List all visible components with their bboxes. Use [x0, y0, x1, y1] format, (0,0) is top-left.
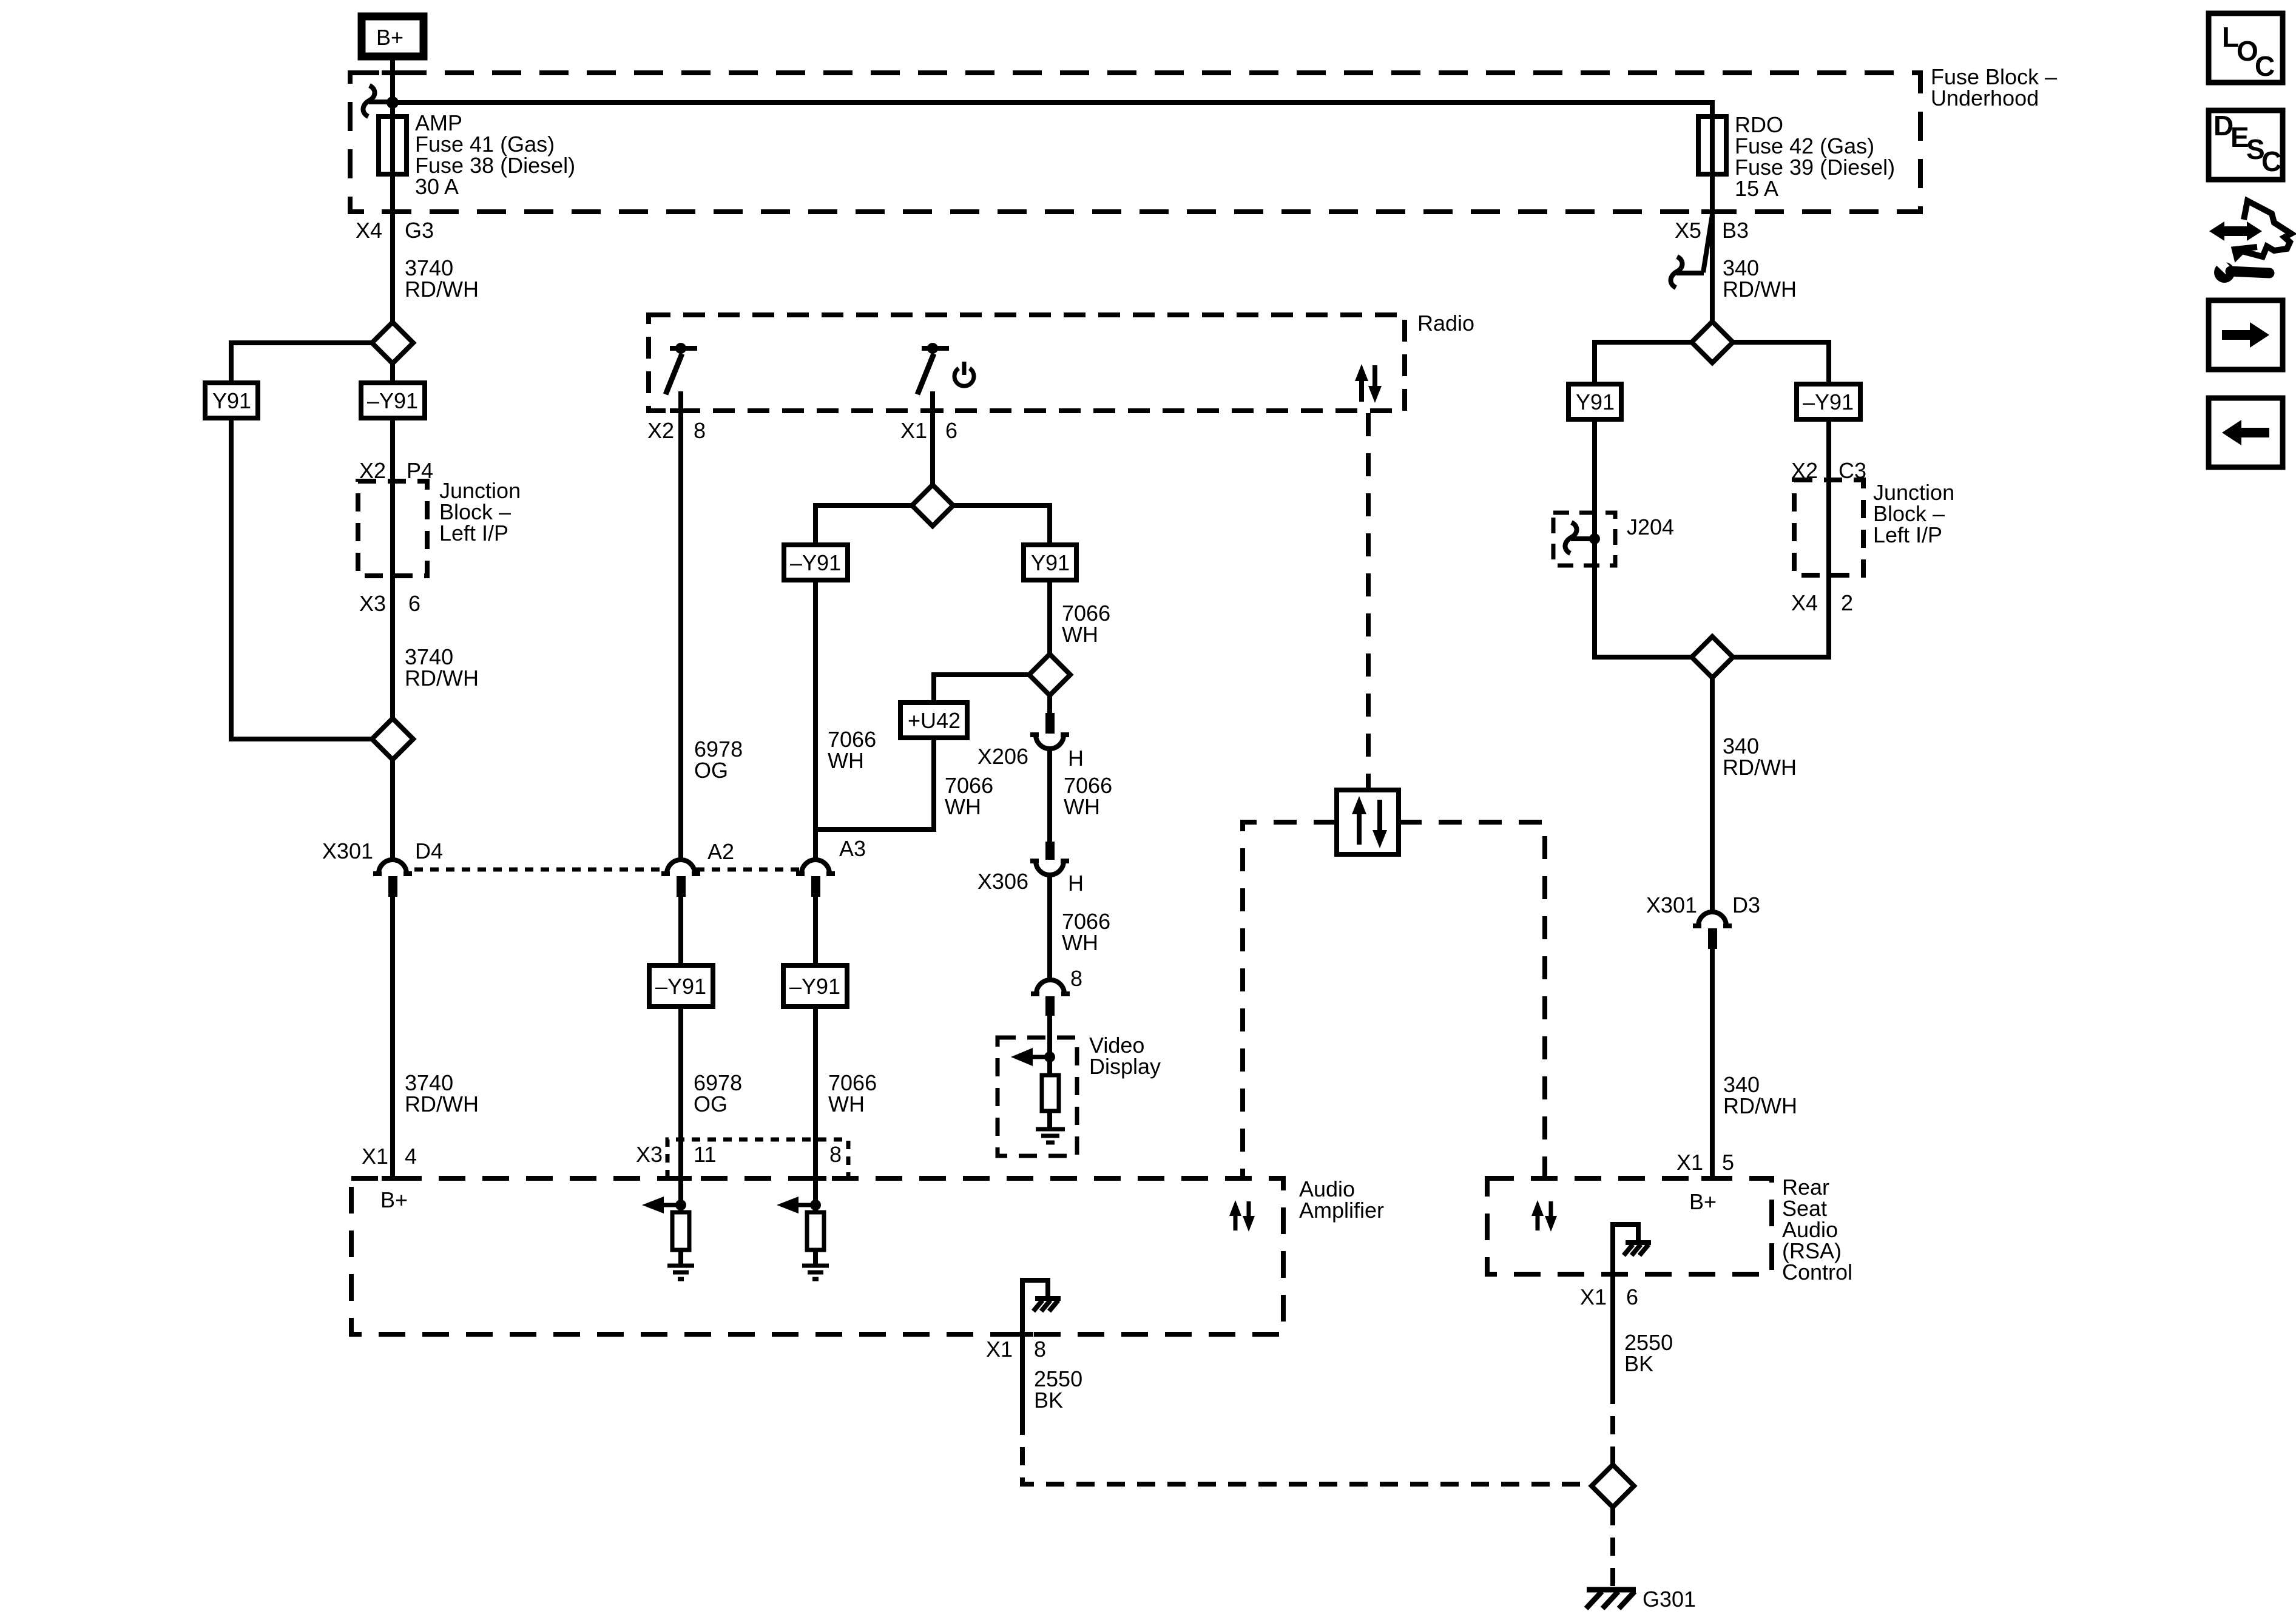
wire Y91 mid down to diamond	[1047, 580, 1052, 654]
svg-text:5: 5	[1722, 1150, 1734, 1175]
amp ground right	[802, 1266, 829, 1279]
radio power switch X1 pivot dot	[927, 343, 938, 354]
connector X206 pin	[1045, 713, 1055, 734]
connector label X301 D3	[1646, 893, 1760, 917]
svg-text:WH: WH	[828, 1092, 865, 1116]
tick X3-8 wire at amp edge	[805, 1176, 826, 1181]
svg-text:OG: OG	[694, 1092, 728, 1116]
label Rear Seat Audio RSA Control	[1782, 1175, 1852, 1284]
amp input arrow right	[777, 1197, 815, 1214]
tick from curl to bus	[369, 100, 388, 104]
wire -Y91 lower left to amp	[678, 1007, 683, 1205]
splitter diamond radio power	[912, 485, 953, 526]
connector A2 pin	[677, 876, 686, 897]
tick X1-8 wire at amp bottom edge	[1011, 1332, 1033, 1337]
wire diamond to -Y91 right	[1733, 342, 1829, 384]
svg-text:B+: B+	[380, 1187, 408, 1212]
tick X2 wire at radio edge	[670, 408, 692, 413]
svg-text:X2: X2	[647, 418, 674, 443]
radio switch X2 blade	[666, 354, 682, 394]
svg-text:WH: WH	[828, 748, 864, 773]
RSA control dashed box	[1487, 1178, 1772, 1274]
svg-text:8: 8	[1034, 1337, 1046, 1362]
svg-text:WH: WH	[945, 794, 981, 819]
wire D3 down to RSA	[1710, 949, 1715, 1178]
svg-text:A2: A2	[707, 839, 734, 864]
sidebar repair icon wrench	[2211, 254, 2269, 283]
ground G301	[1586, 1590, 1636, 1609]
connector X206 cup	[1036, 735, 1064, 749]
wire label 7066 WH left branch	[828, 727, 876, 773]
splice curl at B+ bus	[363, 86, 374, 116]
connector 8 pin	[1045, 996, 1055, 1016]
svg-text:Y91: Y91	[1576, 390, 1615, 414]
svg-text:H: H	[1068, 746, 1084, 771]
splice curl J204	[1565, 522, 1576, 553]
wire X206 chain from diamond	[1047, 695, 1052, 713]
wire label 340 RD/WH lower	[1723, 1072, 1797, 1118]
dashed wire diamond to G301	[1610, 1507, 1615, 1587]
svg-text:WH: WH	[1062, 930, 1098, 955]
label RDO fuse	[1735, 112, 1895, 201]
connector label X301 D4	[322, 839, 443, 863]
connector label X1 6 radio	[900, 418, 957, 443]
connector box Y91 left	[205, 383, 258, 418]
svg-text:–Y91: –Y91	[655, 974, 706, 999]
wire radio X2 down	[678, 391, 683, 859]
wire diamond to X301 D4	[390, 760, 395, 859]
wire resistor right to ground	[813, 1205, 818, 1266]
tick B+ wire at fuse block top edge	[382, 70, 403, 75]
splitter diamond right bottom	[1692, 636, 1733, 678]
connector label X306 H	[977, 869, 1084, 896]
svg-text:Amplifier: Amplifier	[1299, 1198, 1384, 1223]
connector box -Y91 lower right	[783, 965, 847, 1007]
connector A3 arc	[802, 860, 829, 874]
label Junction Block - Left I/P	[439, 478, 521, 545]
connector X3 dotted box	[667, 1139, 848, 1178]
svg-text:RD/WH: RD/WH	[1723, 277, 1797, 302]
svg-text:X3: X3	[359, 591, 386, 616]
radio serial data arrows	[1355, 364, 1382, 403]
connector label X4 G3	[356, 218, 434, 243]
splice J204 dashed box	[1553, 513, 1615, 565]
wire label 6978 OG lower	[694, 1070, 742, 1116]
junction block left IP dashed box (right)	[1794, 480, 1863, 575]
radio power switch tick	[922, 346, 949, 351]
dashed ground wire amp to splice diamond	[1022, 1417, 1592, 1484]
amp input arrow left	[642, 1197, 681, 1214]
connector A3 pin	[811, 876, 820, 897]
connector label X206 H	[977, 744, 1084, 771]
junction dot J204	[1589, 533, 1600, 544]
connector label X1 4	[362, 1144, 417, 1169]
svg-text:Y91: Y91	[1031, 550, 1070, 575]
power symbol	[954, 362, 974, 386]
tick X1-5 wire at RSA edge	[1701, 1176, 1723, 1181]
sidebar repair icon double arrow	[2209, 221, 2262, 241]
wire label 7066 WH video	[1062, 909, 1110, 955]
wire diamond to U42	[934, 675, 1029, 703]
svg-text:11: 11	[694, 1142, 716, 1167]
wire Y91 right down loop	[1595, 419, 1692, 657]
amp resistor left	[672, 1212, 689, 1250]
radio switch X2 pivot dot	[675, 343, 686, 354]
video display arrow	[1011, 1048, 1050, 1066]
svg-text:B+: B+	[376, 25, 403, 50]
wire diamond down to -Y91	[390, 363, 395, 383]
svg-text:G301: G301	[1643, 1587, 1696, 1612]
connector X301 D4 pin	[388, 876, 397, 897]
wire resistor left to ground	[678, 1205, 683, 1266]
wire -Y91 right down loop	[1733, 419, 1829, 657]
connector box -Y91 lower left	[649, 965, 713, 1007]
wire label 3740 RD/WH lower	[405, 644, 479, 690]
video display ground	[1036, 1129, 1065, 1143]
splitter diamond left top	[372, 322, 413, 363]
svg-text:B3: B3	[1722, 218, 1749, 243]
wire A3 to -Y91 lower right	[813, 897, 818, 966]
connector label X2 8 radio	[647, 418, 706, 443]
wire label 2550 BK RSA	[1624, 1330, 1673, 1376]
wire resistor to ground	[1047, 1111, 1052, 1129]
connector X301 D4 arc	[379, 860, 407, 874]
svg-text:–Y91: –Y91	[367, 388, 418, 413]
svg-text:X301: X301	[1646, 893, 1697, 917]
wire A2 to -Y91 lower left	[678, 897, 683, 966]
svg-text:6: 6	[1626, 1284, 1638, 1309]
video display resistor	[1042, 1075, 1059, 1111]
sidebar back arrow button	[2209, 398, 2283, 467]
wire X206 to X306	[1047, 749, 1052, 842]
wire -Y91 lower right to amp	[813, 1007, 818, 1205]
connector label X1 8 amp	[986, 1337, 1046, 1362]
wire label 340 RD/WH	[1723, 255, 1797, 302]
svg-text:Y91: Y91	[212, 388, 251, 413]
svg-text:8: 8	[829, 1142, 842, 1167]
amp internal chassis ground glyph	[1033, 1298, 1061, 1311]
wire label 7066 WH serial	[1064, 773, 1112, 819]
svg-text:+U42: +U42	[908, 708, 961, 733]
wire diamond to -Y91 mid	[815, 505, 912, 545]
RSA internal ground jog	[1613, 1224, 1638, 1274]
svg-text:4: 4	[405, 1144, 417, 1169]
video display dashed box	[998, 1038, 1077, 1156]
svg-text:Radio: Radio	[1417, 311, 1474, 336]
amp ground left	[667, 1266, 694, 1279]
RSA serial arrows	[1531, 1200, 1557, 1232]
connector label X3 11 8	[636, 1142, 842, 1167]
radio power switch blade	[917, 354, 934, 394]
wire label 3740 RD/WH bottom	[405, 1070, 479, 1116]
svg-text:WH: WH	[1064, 794, 1100, 819]
connector label X1 6 RSA	[1580, 1284, 1638, 1309]
svg-text:Left I/P: Left I/P	[1873, 522, 1942, 547]
svg-text:X206: X206	[977, 744, 1028, 769]
wire -Y91 mid down to A3	[813, 580, 818, 859]
RSA internal chassis ground glyph	[1624, 1243, 1651, 1255]
wire RSA ground down	[1610, 1274, 1615, 1386]
serial data node box	[1337, 790, 1399, 854]
svg-text:Underhood: Underhood	[1931, 86, 2039, 110]
sidebar repair icon outline	[2235, 201, 2291, 257]
connector label X4 2	[1791, 590, 1853, 615]
wire label 3740 RD/WH	[405, 255, 479, 302]
connector label X5 B3	[1675, 218, 1749, 243]
fuse AMP F41/F38	[379, 116, 407, 174]
svg-text:6: 6	[945, 418, 957, 443]
radio switch X2 pivot tick	[670, 346, 697, 351]
svg-text:X1: X1	[1580, 1284, 1607, 1309]
connector label X3 6	[359, 591, 420, 616]
splice slash at X5	[1703, 215, 1712, 272]
svg-text:RD/WH: RD/WH	[405, 1092, 479, 1116]
dashed ground wire RSA to diamond	[1610, 1386, 1615, 1465]
svg-text:15 A: 15 A	[1735, 176, 1778, 201]
wire Y91 loop down	[231, 418, 372, 739]
wire diamond to Y91 right	[1595, 342, 1692, 384]
label Junction Block - Left I/P right	[1873, 480, 1954, 547]
splitter diamond 7066	[1029, 654, 1070, 695]
connector label X1 5	[1676, 1150, 1734, 1175]
svg-text:H: H	[1068, 871, 1084, 896]
svg-text:BK: BK	[1034, 1388, 1063, 1413]
svg-text:C: C	[2255, 50, 2275, 82]
tick X1 wire at radio edge	[922, 408, 944, 413]
svg-text:2: 2	[1841, 590, 1853, 615]
svg-text:X4: X4	[1791, 590, 1818, 615]
svg-text:8: 8	[694, 418, 706, 443]
label Audio Amplifier	[1299, 1176, 1384, 1223]
splitter diamond right top	[1692, 322, 1733, 363]
wire B+ to fuse block bus	[390, 60, 395, 322]
svg-text:X1: X1	[1676, 1150, 1703, 1175]
connector 8 arc	[1036, 980, 1064, 994]
svg-text:X1: X1	[986, 1337, 1013, 1362]
svg-text:Left I/P: Left I/P	[439, 521, 508, 545]
connector box Y91 mid	[1024, 545, 1076, 580]
svg-text:Control: Control	[1782, 1260, 1852, 1284]
connector label X2 P4	[359, 458, 433, 483]
svg-text:D3: D3	[1732, 893, 1760, 917]
splice curl at X5	[1670, 257, 1682, 288]
wire diamond to Y91 branch	[231, 343, 372, 383]
svg-text:RD/WH: RD/WH	[1723, 755, 1797, 780]
connector X306 pin	[1045, 842, 1055, 860]
tick X1-6 wire at RSA edge	[1602, 1272, 1624, 1277]
tick X3-11 wire at amp edge	[670, 1176, 692, 1181]
amp internal ground jog	[1022, 1280, 1048, 1417]
wire label 7066 WH under U42	[945, 773, 993, 819]
label Video Display	[1089, 1033, 1161, 1079]
dotted inline connector X301 run	[414, 868, 800, 872]
svg-text:OG: OG	[694, 758, 728, 783]
svg-text:RD/WH: RD/WH	[405, 666, 479, 690]
tick from curl to slash	[1676, 271, 1704, 275]
wire radio X1 down to diamond	[930, 391, 935, 485]
svg-text:X5: X5	[1675, 218, 1701, 243]
svg-text:J204: J204	[1627, 515, 1674, 539]
connector box -Y91 left	[361, 383, 425, 418]
wire D4 down to amplifier	[390, 897, 395, 1178]
label AMP fuse	[415, 110, 575, 199]
bus wire across fuse block	[393, 103, 1712, 174]
tick curl to J204 dot	[1571, 536, 1590, 541]
audio amplifier dashed box	[351, 1178, 1283, 1334]
wire U42 down and join -Y91 wire	[817, 738, 934, 829]
svg-text:6: 6	[408, 591, 420, 616]
connector X301 D3 pin	[1708, 928, 1717, 949]
amp input junction dot left	[675, 1200, 686, 1210]
sidebar DESC button	[2209, 110, 2283, 180]
splitter diamond left bottom	[372, 718, 413, 760]
dashed serial data wire radio to node	[1366, 413, 1371, 790]
svg-text:X1: X1	[362, 1144, 388, 1169]
svg-text:–Y91: –Y91	[789, 974, 840, 999]
svg-text:D4: D4	[415, 839, 443, 863]
svg-text:X306: X306	[977, 869, 1028, 894]
tick X4 wire at fuse block edge	[382, 209, 403, 214]
svg-text:–Y91: –Y91	[1803, 390, 1854, 414]
connector A2 arc	[667, 860, 695, 874]
connector box +U42	[900, 703, 967, 738]
wire label 340 RD/WH mid	[1723, 734, 1797, 780]
connector X306 cup	[1036, 861, 1064, 875]
dashed serial wire node to audio amplifier	[1243, 822, 1337, 1178]
wire label 7066 WH under Y91	[1062, 601, 1110, 647]
wire diamond down to X301 D3	[1710, 678, 1715, 911]
svg-text:B+: B+	[1689, 1189, 1717, 1214]
svg-text:WH: WH	[1062, 622, 1098, 647]
connector box Y91 right	[1568, 384, 1621, 419]
amp serial arrows	[1229, 1200, 1255, 1232]
wire 8 pin into video display	[1047, 1016, 1052, 1075]
wire X306 down to pin8	[1047, 875, 1052, 979]
video display junction dot	[1044, 1052, 1055, 1062]
wire diamond to Y91 mid	[953, 505, 1050, 545]
tick X5 wire at fuse block edge	[1701, 209, 1723, 214]
wire label 7066 WH lower	[828, 1070, 877, 1116]
junction node on bus	[387, 96, 399, 109]
svg-text:G3: G3	[405, 218, 434, 243]
label Fuse Block - Underhood	[1931, 64, 2057, 110]
svg-text:–Y91: –Y91	[790, 550, 841, 575]
sidebar forward arrow button	[2209, 300, 2283, 370]
wire -Y91 down through junction block	[390, 418, 395, 718]
svg-text:X301: X301	[322, 839, 373, 863]
connector box -Y91 mid	[784, 545, 848, 580]
radio dashed box	[649, 315, 1405, 411]
svg-text:BK: BK	[1624, 1351, 1653, 1376]
svg-text:C: C	[2261, 146, 2281, 177]
svg-text:X4: X4	[356, 218, 382, 243]
connector box -Y91 right	[1797, 384, 1860, 419]
ground splice diamond	[1592, 1465, 1634, 1507]
connector label X2 C3	[1791, 458, 1866, 483]
connector X301 D3 arc	[1698, 912, 1726, 926]
svg-text:X1: X1	[900, 418, 927, 443]
wire RDO fuse down to X5	[1710, 119, 1715, 322]
svg-text:Display: Display	[1089, 1054, 1161, 1079]
wire label 6978 OG upper	[694, 737, 743, 783]
svg-text:RD/WH: RD/WH	[1723, 1093, 1797, 1118]
wire label 2550 BK amp	[1034, 1366, 1082, 1413]
tick X1-4 wire at amp edge	[382, 1176, 403, 1181]
amp input junction dot right	[810, 1200, 821, 1210]
svg-text:30 A: 30 A	[415, 174, 459, 199]
fuse block underhood dashed box	[350, 73, 1920, 212]
dashed serial wire node to RSA control	[1399, 822, 1545, 1178]
svg-text:8: 8	[1070, 966, 1082, 991]
svg-text:RD/WH: RD/WH	[405, 277, 479, 302]
sidebar LOC button	[2209, 13, 2283, 83]
battery feed B+	[362, 16, 424, 56]
junction block left IP dashed box (left)	[358, 481, 427, 576]
fuse RDO F42/F39	[1698, 116, 1726, 174]
svg-text:X3: X3	[636, 1142, 663, 1167]
svg-text:A3: A3	[839, 836, 866, 861]
amp resistor right	[807, 1212, 824, 1250]
serial data node arrows	[1352, 796, 1387, 848]
